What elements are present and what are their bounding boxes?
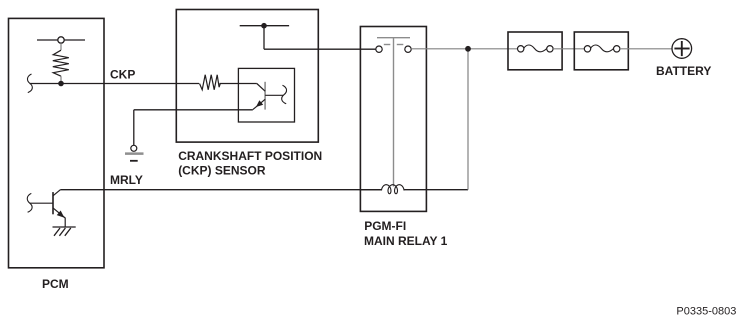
relay armature link <box>393 38 395 187</box>
wire (relay contact to fuse 1) <box>411 48 517 50</box>
svg-text:MRLY: MRLY <box>110 173 143 187</box>
fuse box 2 <box>574 32 628 70</box>
terminal line (PCM pull-up top) <box>37 39 85 41</box>
svg-text:PGM-FI: PGM-FI <box>364 219 406 233</box>
wire (circle to resistor) <box>60 43 62 50</box>
ground slash 3 <box>65 228 71 236</box>
transistor Q1 emitter <box>53 208 65 218</box>
fuse 1 element <box>524 45 547 52</box>
ground slash 2 <box>59 228 65 236</box>
wire (Q1 emitter to ground) <box>64 218 66 227</box>
wire (resistor to inner box) <box>219 83 256 85</box>
ground bar short <box>130 160 138 162</box>
wire (relay box left to coil) <box>360 189 381 191</box>
CKP sensor box <box>176 10 318 143</box>
transistor Q2 collector <box>257 84 265 92</box>
fuse 1 circle right <box>547 46 553 52</box>
fuse 2 circle right <box>614 46 620 52</box>
fuse box 1 <box>508 32 562 70</box>
PCM box <box>9 18 105 267</box>
wire break squiggle (Q1 base) <box>27 193 32 212</box>
transistor Q2 emitter <box>253 99 265 109</box>
wire CKP (PCM to sensor resistor) <box>30 83 200 85</box>
PGM-FI main relay box <box>360 27 426 212</box>
resistor R1 (PCM pull-up) <box>53 50 69 76</box>
transistor Q2 emitter arrow <box>256 100 263 107</box>
transistor Q1 collector <box>53 190 60 196</box>
svg-text:PCM: PCM <box>42 277 69 291</box>
wire (sensor emitter out) <box>134 109 253 111</box>
transistor Q2 base wire <box>265 94 284 96</box>
svg-text:P0335-0803: P0335-0803 <box>676 306 736 318</box>
relay contact dash 1 <box>384 44 391 46</box>
node (battery feed junction) <box>465 46 471 52</box>
svg-text:BATTERY: BATTERY <box>656 64 711 78</box>
relay contact circle left <box>376 46 382 52</box>
resistor R2 (sensor series) <box>200 75 221 90</box>
relay armature bar <box>377 37 410 39</box>
relay contact circle right <box>405 46 411 52</box>
node (CKP junction in PCM) <box>58 81 64 87</box>
relay contact dash 2 <box>397 44 404 46</box>
fuse 2 circle left <box>584 46 590 52</box>
transistor Q1 emitter arrow <box>57 211 65 218</box>
battery plus vertical <box>681 41 683 56</box>
wire (coil to riser) <box>404 189 468 191</box>
svg-text:CKP: CKP <box>110 68 135 82</box>
transistor Q1 bar (PCM) <box>52 192 54 214</box>
battery plus horizontal <box>674 48 689 50</box>
ground terminal circle (sensor ground) <box>131 145 137 151</box>
sensor supply stub line <box>240 25 289 27</box>
fuse 1 circle left <box>518 46 524 52</box>
svg-text:(CKP) SENSOR: (CKP) SENSOR <box>178 163 266 177</box>
wire (sensor to relay contact) <box>264 48 376 50</box>
wire (fuse1 to fuse2) <box>553 48 584 50</box>
wire (down to sensor ground) <box>133 110 135 146</box>
transistor Q2 bar (sensor) <box>264 82 266 110</box>
wire MRLY (Q1 collector to relay coil) <box>60 189 381 191</box>
wire (resistor to node) <box>60 76 62 83</box>
wire (fuse2 to battery) <box>620 48 672 50</box>
battery terminal circle <box>672 39 692 59</box>
node (sensor supply junction) <box>261 23 267 29</box>
svg-text:MAIN RELAY 1: MAIN RELAY 1 <box>364 234 448 248</box>
fuse 2 element <box>591 45 614 52</box>
ground slash 1 <box>54 228 60 236</box>
sensor inner box <box>238 68 294 122</box>
svg-text:CRANKSHAFT POSITION: CRANKSHAFT POSITION <box>178 149 322 163</box>
wire break squiggle (CKP left) <box>27 74 32 93</box>
ground bar wide <box>125 152 144 155</box>
relay coil L1 <box>382 185 405 194</box>
transistor Q1 base wire <box>30 202 53 204</box>
wire (supply node down) <box>263 26 265 50</box>
terminal circle <box>58 37 64 43</box>
ground (PCM chassis) bar <box>53 226 76 228</box>
wire riser (junction down) <box>467 49 469 190</box>
wire break squiggle (sensor base) <box>282 85 287 104</box>
